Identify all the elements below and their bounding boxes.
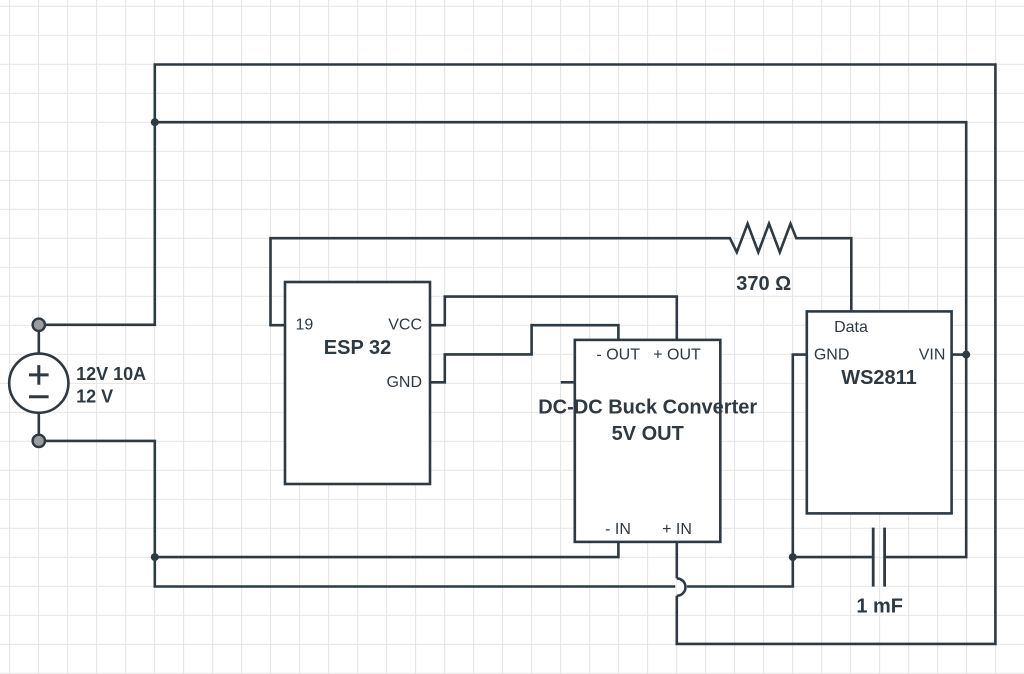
svg-text:Data: Data: [834, 319, 868, 336]
svg-text:VIN: VIN: [919, 346, 946, 363]
svg-text:GND: GND: [814, 346, 850, 363]
svg-text:370 Ω: 370 Ω: [736, 273, 791, 295]
svg-text:1 mF: 1 mF: [856, 595, 903, 617]
svg-text:19: 19: [296, 317, 314, 334]
svg-text:+ OUT: + OUT: [653, 347, 701, 364]
svg-text:ESP 32: ESP 32: [324, 337, 391, 359]
svg-text:- IN: - IN: [605, 521, 631, 538]
svg-text:GND: GND: [386, 374, 422, 391]
svg-text:12V 10A: 12V 10A: [76, 364, 146, 384]
svg-text:+ IN: + IN: [662, 521, 692, 538]
svg-text:VCC: VCC: [388, 317, 422, 334]
svg-text:DC-DC Buck Converter: DC-DC Buck Converter: [538, 397, 757, 419]
svg-text:12 V: 12 V: [76, 387, 113, 407]
svg-text:5V OUT: 5V OUT: [612, 423, 684, 445]
svg-text:WS2811: WS2811: [841, 367, 917, 389]
svg-text:- OUT: - OUT: [596, 347, 640, 364]
